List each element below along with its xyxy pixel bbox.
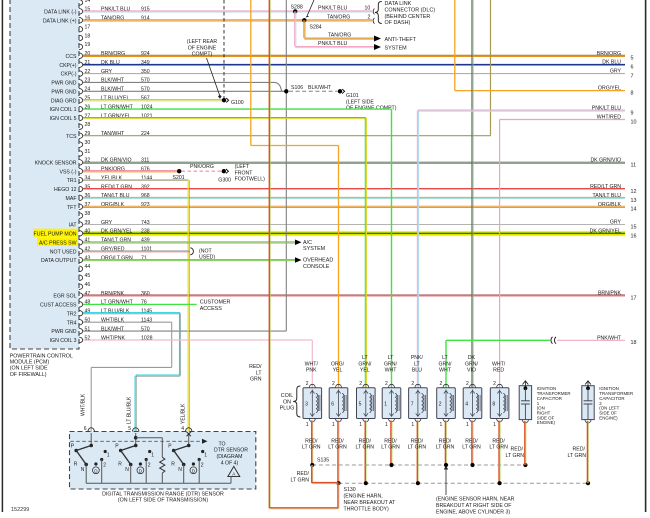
svg-text:WHT/RED: WHT/RED xyxy=(597,115,621,121)
svg-text:OF DASH): OF DASH) xyxy=(385,20,411,26)
svg-text:R: R xyxy=(118,462,122,468)
svg-text:RED/: RED/ xyxy=(465,438,478,444)
svg-text:DTR SENSOR: DTR SENSOR xyxy=(214,448,248,454)
svg-text:LT: LT xyxy=(388,355,394,361)
svg-text:DATA LINK (+): DATA LINK (+) xyxy=(43,18,77,24)
svg-text:1: 1 xyxy=(151,453,154,459)
svg-text:1: 1 xyxy=(359,422,362,428)
svg-text:MAF: MAF xyxy=(66,196,77,202)
svg-text:RED/: RED/ xyxy=(573,447,586,453)
svg-text:44: 44 xyxy=(85,264,91,270)
svg-text:2: 2 xyxy=(201,463,204,469)
svg-text:14: 14 xyxy=(631,207,637,213)
svg-text:(ON LEFT SIDE: (ON LEFT SIDE xyxy=(10,366,48,372)
svg-text:LT GRN: LT GRN xyxy=(408,445,427,451)
svg-text:(ENGINE SENSOR HARN, NEAR: (ENGINE SENSOR HARN, NEAR xyxy=(436,497,515,503)
svg-text:IAT: IAT xyxy=(69,223,78,229)
svg-text:KNOCK SENSOR: KNOCK SENSOR xyxy=(35,161,77,167)
svg-text:2: 2 xyxy=(439,401,442,407)
svg-text:1: 1 xyxy=(466,422,469,428)
svg-text:18: 18 xyxy=(631,340,637,346)
svg-text:EGR SOL: EGR SOL xyxy=(53,294,76,300)
svg-text:BRN/PNK: BRN/PNK xyxy=(598,291,622,297)
svg-text:S135: S135 xyxy=(317,457,329,463)
svg-text:LT GRN: LT GRN xyxy=(356,445,375,451)
svg-text:BLK/WHT: BLK/WHT xyxy=(308,85,332,91)
svg-text:31: 31 xyxy=(85,149,91,155)
svg-text:WHT/BLK: WHT/BLK xyxy=(81,393,87,416)
svg-text:1: 1 xyxy=(204,453,207,459)
svg-text:IGN COIL 3: IGN COIL 3 xyxy=(50,338,77,344)
svg-text:NOT USED: NOT USED xyxy=(50,249,77,255)
svg-text:N: N xyxy=(178,467,182,473)
svg-text:CUSTOMER: CUSTOMER xyxy=(200,300,231,306)
svg-text:R: R xyxy=(74,462,78,468)
svg-text:ACCESS: ACCESS xyxy=(200,306,223,312)
svg-text:15: 15 xyxy=(631,224,637,230)
svg-text:FUEL PUMP MON: FUEL PUMP MON xyxy=(34,232,77,238)
svg-text:2: 2 xyxy=(411,381,414,387)
svg-text:FOOTWELL): FOOTWELL) xyxy=(235,177,266,183)
svg-text:G101: G101 xyxy=(346,93,359,99)
svg-text:1: 1 xyxy=(306,422,309,428)
svg-text:GRY: GRY xyxy=(610,220,622,226)
svg-text:LT GRN: LT GRN xyxy=(302,445,321,451)
svg-text:CONNECTOR (DLC): CONNECTOR (DLC) xyxy=(385,8,436,14)
svg-text:5: 5 xyxy=(631,56,634,62)
svg-text:DK GRN/VIO: DK GRN/VIO xyxy=(590,157,621,163)
svg-text:TR4: TR4 xyxy=(67,320,77,326)
svg-text:S201: S201 xyxy=(173,175,185,181)
svg-text:GRN/: GRN/ xyxy=(358,361,372,367)
svg-text:(ON LEFT SIDE OF TRANSMISSION): (ON LEFT SIDE OF TRANSMISSION) xyxy=(118,498,208,504)
svg-text:PNK/LT BLU: PNK/LT BLU xyxy=(318,41,347,47)
svg-text:RED: RED xyxy=(493,368,504,374)
svg-text:POWERTRAIN CONTROL: POWERTRAIN CONTROL xyxy=(10,353,73,359)
svg-text:1: 1 xyxy=(385,422,388,428)
svg-text:S130: S130 xyxy=(344,487,356,493)
svg-text:DK GRN/YEL: DK GRN/YEL xyxy=(590,228,622,234)
svg-text:SYSTEM: SYSTEM xyxy=(303,246,326,252)
svg-text:19: 19 xyxy=(85,42,91,48)
svg-text:THROTTLE BODY): THROTTLE BODY) xyxy=(344,506,390,512)
svg-text:PWR GND: PWR GND xyxy=(51,329,76,335)
svg-text:(BEHIND CENTER: (BEHIND CENTER xyxy=(385,14,431,20)
svg-text:2: 2 xyxy=(440,381,443,387)
svg-text:RED/: RED/ xyxy=(297,471,310,477)
svg-text:PWR GND: PWR GND xyxy=(51,89,76,95)
svg-text:17: 17 xyxy=(85,25,91,31)
svg-text:A/C: A/C xyxy=(303,240,312,246)
svg-text:(NOT: (NOT xyxy=(199,248,213,254)
svg-text:CKP(-): CKP(-) xyxy=(61,72,77,78)
svg-text:DK: DK xyxy=(468,355,476,361)
svg-text:DATA OUTPUT: DATA OUTPUT xyxy=(41,258,77,264)
svg-text:LT: LT xyxy=(442,355,448,361)
svg-text:7: 7 xyxy=(411,401,414,407)
svg-text:DIGITAL TRANSMISSION RANGE (DT: DIGITAL TRANSMISSION RANGE (DTR) SENSOR xyxy=(102,491,224,497)
svg-text:VIO: VIO xyxy=(467,368,476,374)
svg-text:OF FIREWALL): OF FIREWALL) xyxy=(10,372,47,378)
svg-text:OF ENGINE: OF ENGINE xyxy=(188,45,217,51)
svg-text:1: 1 xyxy=(493,422,496,428)
svg-text:TO: TO xyxy=(218,441,225,447)
svg-text:2: 2 xyxy=(466,381,469,387)
svg-text:SYSTEM: SYSTEM xyxy=(385,45,408,51)
svg-text:LT GRN: LT GRN xyxy=(506,453,525,459)
svg-text:DK BLU: DK BLU xyxy=(602,60,621,66)
svg-text:17: 17 xyxy=(631,296,637,302)
svg-text:5: 5 xyxy=(359,401,362,407)
svg-text:(LEFT SIDE: (LEFT SIDE xyxy=(346,99,374,105)
svg-text:1: 1 xyxy=(440,422,443,428)
svg-text:CCS: CCS xyxy=(66,54,77,60)
svg-text:2: 2 xyxy=(493,381,496,387)
svg-text:7: 7 xyxy=(631,74,634,80)
svg-text:(ENGINE HARN,: (ENGINE HARN, xyxy=(344,494,383,500)
svg-text:9: 9 xyxy=(631,110,634,116)
svg-text:28: 28 xyxy=(85,122,91,128)
svg-text:8: 8 xyxy=(631,91,634,97)
svg-text:IGN COIL 1: IGN COIL 1 xyxy=(50,107,77,113)
svg-text:2: 2 xyxy=(103,463,106,469)
svg-text:14: 14 xyxy=(85,0,91,4)
svg-text:ORG/YEL: ORG/YEL xyxy=(598,86,621,92)
svg-text:LT: LT xyxy=(362,355,368,361)
svg-text:MODULE (PCM): MODULE (PCM) xyxy=(10,360,50,366)
svg-text:HEGO 12: HEGO 12 xyxy=(54,187,77,193)
svg-text:2: 2 xyxy=(306,381,309,387)
svg-text:CAPACITOR: CAPACITOR xyxy=(537,396,562,401)
svg-text:ENGINE, ABOVE CYLINDER 3): ENGINE, ABOVE CYLINDER 3) xyxy=(436,509,510,515)
svg-text:LT GRN: LT GRN xyxy=(290,478,309,484)
svg-text:30: 30 xyxy=(85,140,91,146)
svg-text:TFT: TFT xyxy=(67,205,77,211)
svg-text:N: N xyxy=(125,467,129,473)
svg-text:(LEFT REAR: (LEFT REAR xyxy=(187,39,217,45)
svg-text:(LEFT: (LEFT xyxy=(235,164,250,170)
svg-text:RED/: RED/ xyxy=(384,438,397,444)
svg-text:OVERHEAD: OVERHEAD xyxy=(303,258,333,264)
svg-text:PNK/LT BLU: PNK/LT BLU xyxy=(592,106,621,112)
svg-text:YEL: YEL xyxy=(333,368,343,374)
svg-text:N: N xyxy=(81,467,85,473)
svg-text:2: 2 xyxy=(359,381,362,387)
svg-text:G100: G100 xyxy=(231,100,244,106)
svg-text:PNK/WHT: PNK/WHT xyxy=(597,335,622,341)
svg-text:DATA LINK: DATA LINK xyxy=(385,1,412,7)
svg-text:RED/: RED/ xyxy=(511,447,524,453)
svg-text:TAN/ORG: TAN/ORG xyxy=(328,33,351,39)
svg-text:YEL/BLK: YEL/BLK xyxy=(180,403,186,424)
svg-text:5: 5 xyxy=(128,426,131,432)
svg-text:RED/: RED/ xyxy=(305,438,318,444)
svg-text:CAPACITOR: CAPACITOR xyxy=(599,396,624,401)
svg-text:LT: LT xyxy=(256,370,262,376)
svg-text:2: 2 xyxy=(385,381,388,387)
svg-text:ENGINE): ENGINE) xyxy=(537,420,556,425)
svg-text:(DIAGRAM: (DIAGRAM xyxy=(217,454,243,460)
svg-text:LT GRN: LT GRN xyxy=(489,445,508,451)
svg-text:WHT: WHT xyxy=(385,368,398,374)
svg-text:R: R xyxy=(171,462,175,468)
svg-text:PWR GND: PWR GND xyxy=(51,81,76,87)
svg-text:GRN/: GRN/ xyxy=(384,361,398,367)
svg-text:WHT/: WHT/ xyxy=(305,361,319,367)
svg-text:PNK: PNK xyxy=(306,368,317,374)
svg-text:RED/: RED/ xyxy=(439,438,452,444)
svg-text:38: 38 xyxy=(85,211,91,217)
svg-text:FRONT: FRONT xyxy=(235,170,254,176)
svg-text:PNK/ORG: PNK/ORG xyxy=(190,164,214,170)
svg-text:13: 13 xyxy=(631,198,637,204)
svg-text:S284: S284 xyxy=(310,24,322,30)
svg-text:10: 10 xyxy=(631,119,637,125)
svg-text:RED/: RED/ xyxy=(249,364,262,370)
svg-text:6: 6 xyxy=(331,401,334,407)
svg-text:3: 3 xyxy=(305,401,308,407)
svg-text:LT GRN: LT GRN xyxy=(436,445,455,451)
svg-text:RED/LT GRN: RED/LT GRN xyxy=(590,184,621,190)
svg-text:4: 4 xyxy=(465,401,468,407)
svg-text:PLUG: PLUG xyxy=(280,406,295,412)
svg-text:ON: ON xyxy=(283,399,291,405)
svg-text:2: 2 xyxy=(148,463,151,469)
svg-text:4 OF 4): 4 OF 4) xyxy=(221,460,239,466)
svg-text:16: 16 xyxy=(631,233,637,239)
svg-text:4: 4 xyxy=(181,426,184,432)
svg-text:CKP(+): CKP(+) xyxy=(59,63,76,69)
svg-text:6: 6 xyxy=(84,426,87,432)
svg-text:CUST ACCESS: CUST ACCESS xyxy=(40,303,77,309)
svg-text:ENGINE): ENGINE) xyxy=(599,415,618,420)
svg-text:1: 1 xyxy=(107,453,110,459)
svg-text:LT GRN: LT GRN xyxy=(328,445,347,451)
svg-text:2: 2 xyxy=(368,15,371,21)
svg-text:8: 8 xyxy=(492,401,495,407)
svg-text:ORG/: ORG/ xyxy=(331,361,345,367)
svg-text:1: 1 xyxy=(384,401,387,407)
svg-text:WHT/: WHT/ xyxy=(492,361,506,367)
svg-text:PNK/LT BLU: PNK/LT BLU xyxy=(318,6,347,12)
svg-text:45: 45 xyxy=(85,273,91,279)
svg-text:LT GRN: LT GRN xyxy=(568,453,587,459)
svg-text:S288: S288 xyxy=(291,4,303,10)
svg-text:TAN/ORG: TAN/ORG xyxy=(327,15,350,21)
svg-text:NEAR BREAKOUT AT: NEAR BREAKOUT AT xyxy=(344,500,397,506)
svg-text:DIAG GRD: DIAG GRD xyxy=(51,98,77,104)
svg-text:LT GRN: LT GRN xyxy=(462,445,481,451)
svg-text:LT: LT xyxy=(414,361,420,367)
svg-text:A/C PRESS SW: A/C PRESS SW xyxy=(39,240,77,246)
svg-text:TCS: TCS xyxy=(66,134,77,140)
svg-text:RED/: RED/ xyxy=(411,438,424,444)
svg-text:COMPT): COMPT) xyxy=(192,52,213,58)
svg-text:TR2: TR2 xyxy=(67,311,77,317)
svg-text:LT GRN: LT GRN xyxy=(381,445,400,451)
svg-text:TR1: TR1 xyxy=(67,178,77,184)
svg-text:IGN COIL 5: IGN COIL 5 xyxy=(50,116,77,122)
svg-text:1: 1 xyxy=(411,422,414,428)
svg-text:YEL: YEL xyxy=(360,368,370,374)
svg-text:46: 46 xyxy=(85,282,91,288)
svg-text:GRY: GRY xyxy=(610,69,622,75)
svg-text:VSS (-): VSS (-) xyxy=(59,169,76,175)
svg-text:G300: G300 xyxy=(218,178,231,184)
svg-text:GRN/: GRN/ xyxy=(465,361,479,367)
svg-text:LT BLU/BLK: LT BLU/BLK xyxy=(127,396,133,424)
svg-text:152299: 152299 xyxy=(11,507,29,513)
svg-text:1: 1 xyxy=(332,422,335,428)
svg-text:DATA LINK (-): DATA LINK (-) xyxy=(44,10,77,16)
svg-text:COIL: COIL xyxy=(281,393,294,399)
svg-text:11: 11 xyxy=(631,162,637,168)
svg-text:WHT: WHT xyxy=(439,368,452,374)
svg-text:10: 10 xyxy=(365,6,371,12)
svg-text:RED/: RED/ xyxy=(359,438,372,444)
svg-text:ANTI-THEFT: ANTI-THEFT xyxy=(385,37,417,43)
svg-text:CONSOLE: CONSOLE xyxy=(303,264,330,270)
svg-text:18: 18 xyxy=(85,33,91,39)
svg-text:GRN: GRN xyxy=(250,377,262,383)
svg-text:2: 2 xyxy=(332,381,335,387)
svg-text:BLU: BLU xyxy=(412,368,422,374)
svg-text:S106: S106 xyxy=(291,85,303,91)
svg-text:RED/: RED/ xyxy=(492,438,505,444)
svg-text:BRN/ORG: BRN/ORG xyxy=(597,51,621,57)
svg-text:GRN/: GRN/ xyxy=(439,361,453,367)
svg-text:6: 6 xyxy=(631,65,634,71)
svg-text:PNK/: PNK/ xyxy=(411,355,424,361)
svg-text:12: 12 xyxy=(631,189,637,195)
svg-text:BREAKOUT AT RIGHT SIDE OF: BREAKOUT AT RIGHT SIDE OF xyxy=(436,503,511,509)
svg-text:ORG/BLK: ORG/BLK xyxy=(598,202,622,208)
svg-text:RED/: RED/ xyxy=(331,438,344,444)
svg-text:TAN/LT BLU: TAN/LT BLU xyxy=(592,193,621,199)
